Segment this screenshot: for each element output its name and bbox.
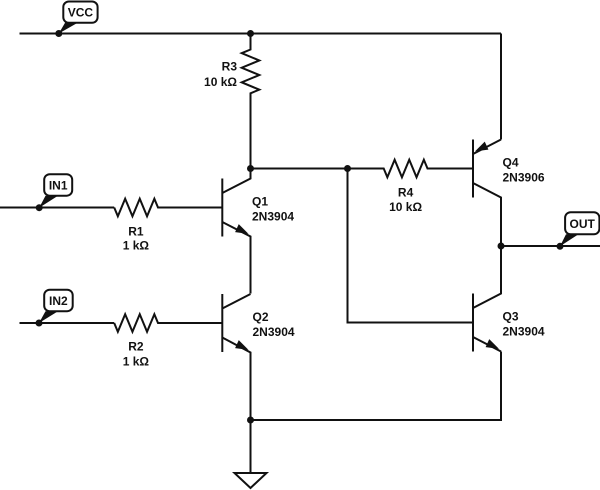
svg-text:VCC: VCC — [68, 5, 94, 19]
node OUT junction — [498, 243, 505, 250]
svg-text:Q2: Q2 — [253, 310, 269, 324]
transistor Q1 2N3904 — [222, 169, 294, 294]
svg-text:10 kΩ: 10 kΩ — [389, 200, 422, 214]
svg-text:R4: R4 — [398, 185, 414, 199]
flag IN1 — [39, 174, 72, 208]
svg-text:2N3906: 2N3906 — [503, 170, 545, 184]
wire Q4 emitter drop from VCC rail — [500, 34, 502, 140]
wire branch down to Q3 base — [348, 169, 474, 323]
ground — [235, 473, 267, 488]
node R4 / Q3 base branch — [344, 165, 351, 172]
wire bottom rail — [251, 352, 502, 421]
svg-text:R1: R1 — [128, 224, 144, 238]
svg-text:OUT: OUT — [570, 217, 596, 231]
transistor Q3 2N3904 — [473, 246, 545, 352]
flag OUT — [560, 212, 599, 246]
svg-text:1 kΩ: 1 kΩ — [123, 239, 150, 253]
wire collector node to R4 node — [251, 168, 348, 170]
wire IN2 lead — [20, 322, 115, 324]
svg-text:2N3904: 2N3904 — [252, 209, 294, 223]
svg-text:Q1: Q1 — [252, 195, 268, 209]
svg-text:Q3: Q3 — [503, 310, 519, 324]
wire to ground — [250, 420, 252, 473]
transistor Q4 2N3906 — [473, 140, 545, 247]
svg-text:2N3904: 2N3904 — [253, 325, 295, 339]
node IN2 tap dot — [36, 320, 43, 327]
resistor R4 — [348, 160, 474, 214]
node collector of Q1 / R3 bottom — [247, 165, 254, 172]
resistor R3 — [204, 34, 259, 169]
resistor R1 — [114, 199, 222, 253]
node OUT tap dot — [557, 243, 564, 250]
wire VCC rail top — [20, 33, 502, 35]
flag IN2 — [39, 290, 73, 323]
node bottom junction — [247, 417, 254, 424]
svg-text:IN1: IN1 — [49, 178, 68, 192]
node IN1 tap dot — [36, 204, 43, 211]
node VCC tap dot — [55, 30, 62, 37]
transistor Q2 2N3904 — [222, 294, 295, 420]
svg-text:R3: R3 — [222, 60, 238, 74]
wire IN1 lead — [0, 207, 114, 209]
node VCC junction at R3 top — [247, 30, 254, 37]
wire OUT — [501, 245, 600, 247]
svg-text:2N3904: 2N3904 — [503, 324, 545, 338]
flag VCC — [59, 2, 98, 34]
svg-text:1 kΩ: 1 kΩ — [123, 354, 150, 368]
svg-text:IN2: IN2 — [49, 294, 68, 308]
svg-text:Q4: Q4 — [503, 156, 519, 170]
svg-text:R2: R2 — [128, 340, 144, 354]
resistor R2 — [114, 314, 222, 368]
svg-text:10 kΩ: 10 kΩ — [204, 75, 237, 89]
